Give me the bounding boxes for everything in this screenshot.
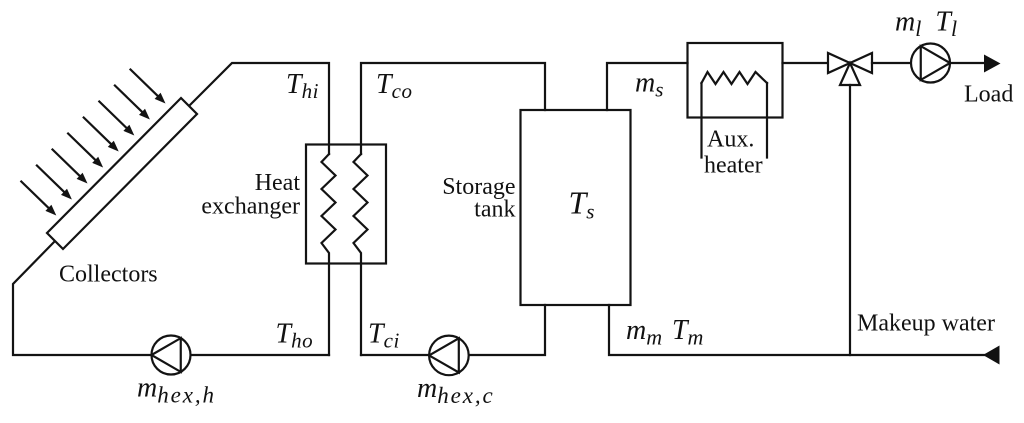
three-way valve (828, 53, 850, 73)
pump m_hex,c (429, 336, 469, 376)
aux heater element legs (700, 83, 702, 158)
wire pump m_hex,h to heat exchanger hot outlet (191, 354, 330, 356)
heat exchanger box (306, 145, 386, 264)
aux heater element zigzag (702, 72, 768, 84)
heat exchanger cold-side coil (right zigzag, T_co to T_ci) (354, 154, 368, 355)
wire aux heater to valve (783, 62, 829, 64)
makeup water arrow (solid left arrowhead) (983, 346, 1000, 365)
wire collector outlet to heat exchanger hot inlet (T_hi line) (189, 63, 329, 154)
svg-text:tank: tank (474, 197, 515, 223)
aux heater box (688, 43, 783, 118)
heat exchanger hot-side coil (left zigzag, T_hi to T_ho) (322, 154, 336, 355)
wire collector return (bottom left) (13, 241, 152, 355)
wire storage tank bottom to makeup water line (609, 305, 985, 355)
storage tank (521, 110, 631, 305)
collector panel (47, 98, 197, 249)
svg-text:Aux.: Aux. (707, 126, 754, 152)
wire T_co line: heat exchanger to storage tank top (361, 63, 545, 154)
wire valve bottom to makeup water line (849, 85, 851, 355)
svg-text:Makeup water: Makeup water (857, 311, 995, 337)
wire T_ci line: heat exchanger out to pump m_hex,c (361, 354, 429, 356)
svg-text:Heat: Heat (255, 170, 301, 196)
solar radiation arrows (21, 70, 165, 216)
load arrow (solid right arrowhead) (984, 55, 1001, 73)
wire m_s line: storage tank top to aux heater (607, 63, 688, 110)
wire pump m_hex,c to storage tank bottom (469, 305, 546, 355)
load pump (911, 44, 950, 83)
wire load pump to load arrow (951, 62, 987, 64)
svg-text:Collectors: Collectors (59, 262, 158, 288)
svg-text:exchanger: exchanger (201, 194, 300, 220)
svg-text:Load: Load (964, 82, 1013, 108)
pump m_hex,h (152, 336, 191, 375)
wire valve to load pump (872, 62, 911, 64)
svg-text:heater: heater (704, 152, 763, 178)
svg-text:ml Tl: ml Tl (895, 7, 957, 42)
